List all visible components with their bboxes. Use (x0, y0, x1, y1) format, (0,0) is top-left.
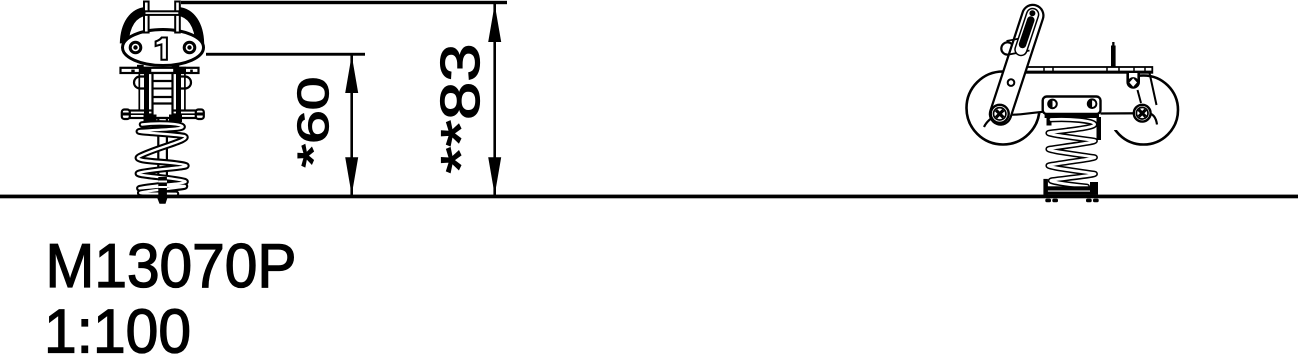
83 dimension line (493, 4, 496, 195)
rear thin legs (138, 73, 140, 110)
base plate (1043, 179, 1048, 195)
svg-text:**83: **83 (429, 44, 491, 174)
white mask between posts (148, 0, 176, 30)
eyes (130, 42, 141, 53)
83 extension line (181, 1, 507, 4)
body mask (1020, 71, 1140, 113)
head oval (123, 30, 204, 66)
crossbar (145, 11, 180, 15)
spring mount blobs (144, 115, 157, 123)
spring coil (138, 123, 187, 193)
number 1 (156, 38, 167, 60)
svg-text:*60: *60 (289, 77, 338, 168)
spring side (1048, 119, 1095, 186)
svg-text:1:100: 1:100 (44, 298, 191, 354)
saddle lines (997, 112, 1043, 115)
screws (991, 105, 1009, 123)
handle posts (144, 2, 149, 33)
right wheel (1109, 76, 1178, 145)
seat plate (1026, 67, 1152, 73)
svg-text:M13070P: M13070P (46, 232, 297, 301)
neck bar (121, 68, 199, 73)
right strut (1150, 73, 1157, 105)
black legs (144, 73, 149, 124)
60 extension line (206, 53, 365, 56)
center rod (158, 118, 167, 178)
rear peg (1111, 46, 1116, 68)
bracket (1043, 97, 1101, 115)
ears (134, 77, 144, 89)
center rod over spring (158, 177, 167, 196)
ground anchor (157, 196, 169, 204)
60 dimension line (350, 55, 353, 195)
feet (1045, 199, 1051, 203)
wide ladder column (153, 73, 173, 118)
left wheel (967, 72, 1040, 145)
handlebar (1001, 42, 1013, 54)
footrest bar (128, 111, 196, 119)
clevis under seat (1128, 73, 1139, 88)
handlebar horns (black band) (124, 12, 146, 44)
